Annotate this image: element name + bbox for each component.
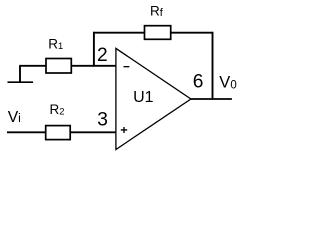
wire top feedback left segment: [93, 32, 145, 34]
wire feedback vertical right: [212, 32, 214, 100]
wire output: [191, 98, 232, 100]
wire R2 to non-inverting input: [70, 131, 116, 133]
op-amp U1: [116, 48, 191, 149]
resistor R1: [46, 59, 71, 74]
svg-text:U1: U1: [133, 89, 154, 106]
svg-text:Vi: Vi: [8, 109, 21, 126]
wire Vi to R2: [7, 131, 46, 133]
wire R1 to inverting input: [71, 65, 116, 67]
resistor R2: [46, 126, 70, 140]
wire feedback vertical at pin 2: [93, 32, 95, 67]
svg-text:6: 6: [193, 72, 204, 93]
svg-text:3: 3: [97, 110, 108, 131]
wire ground to R1: [19, 65, 46, 67]
ground: [8, 66, 34, 82]
resistor Rf: [145, 26, 171, 40]
svg-text:2: 2: [97, 45, 108, 66]
wire top feedback right segment: [171, 32, 214, 34]
